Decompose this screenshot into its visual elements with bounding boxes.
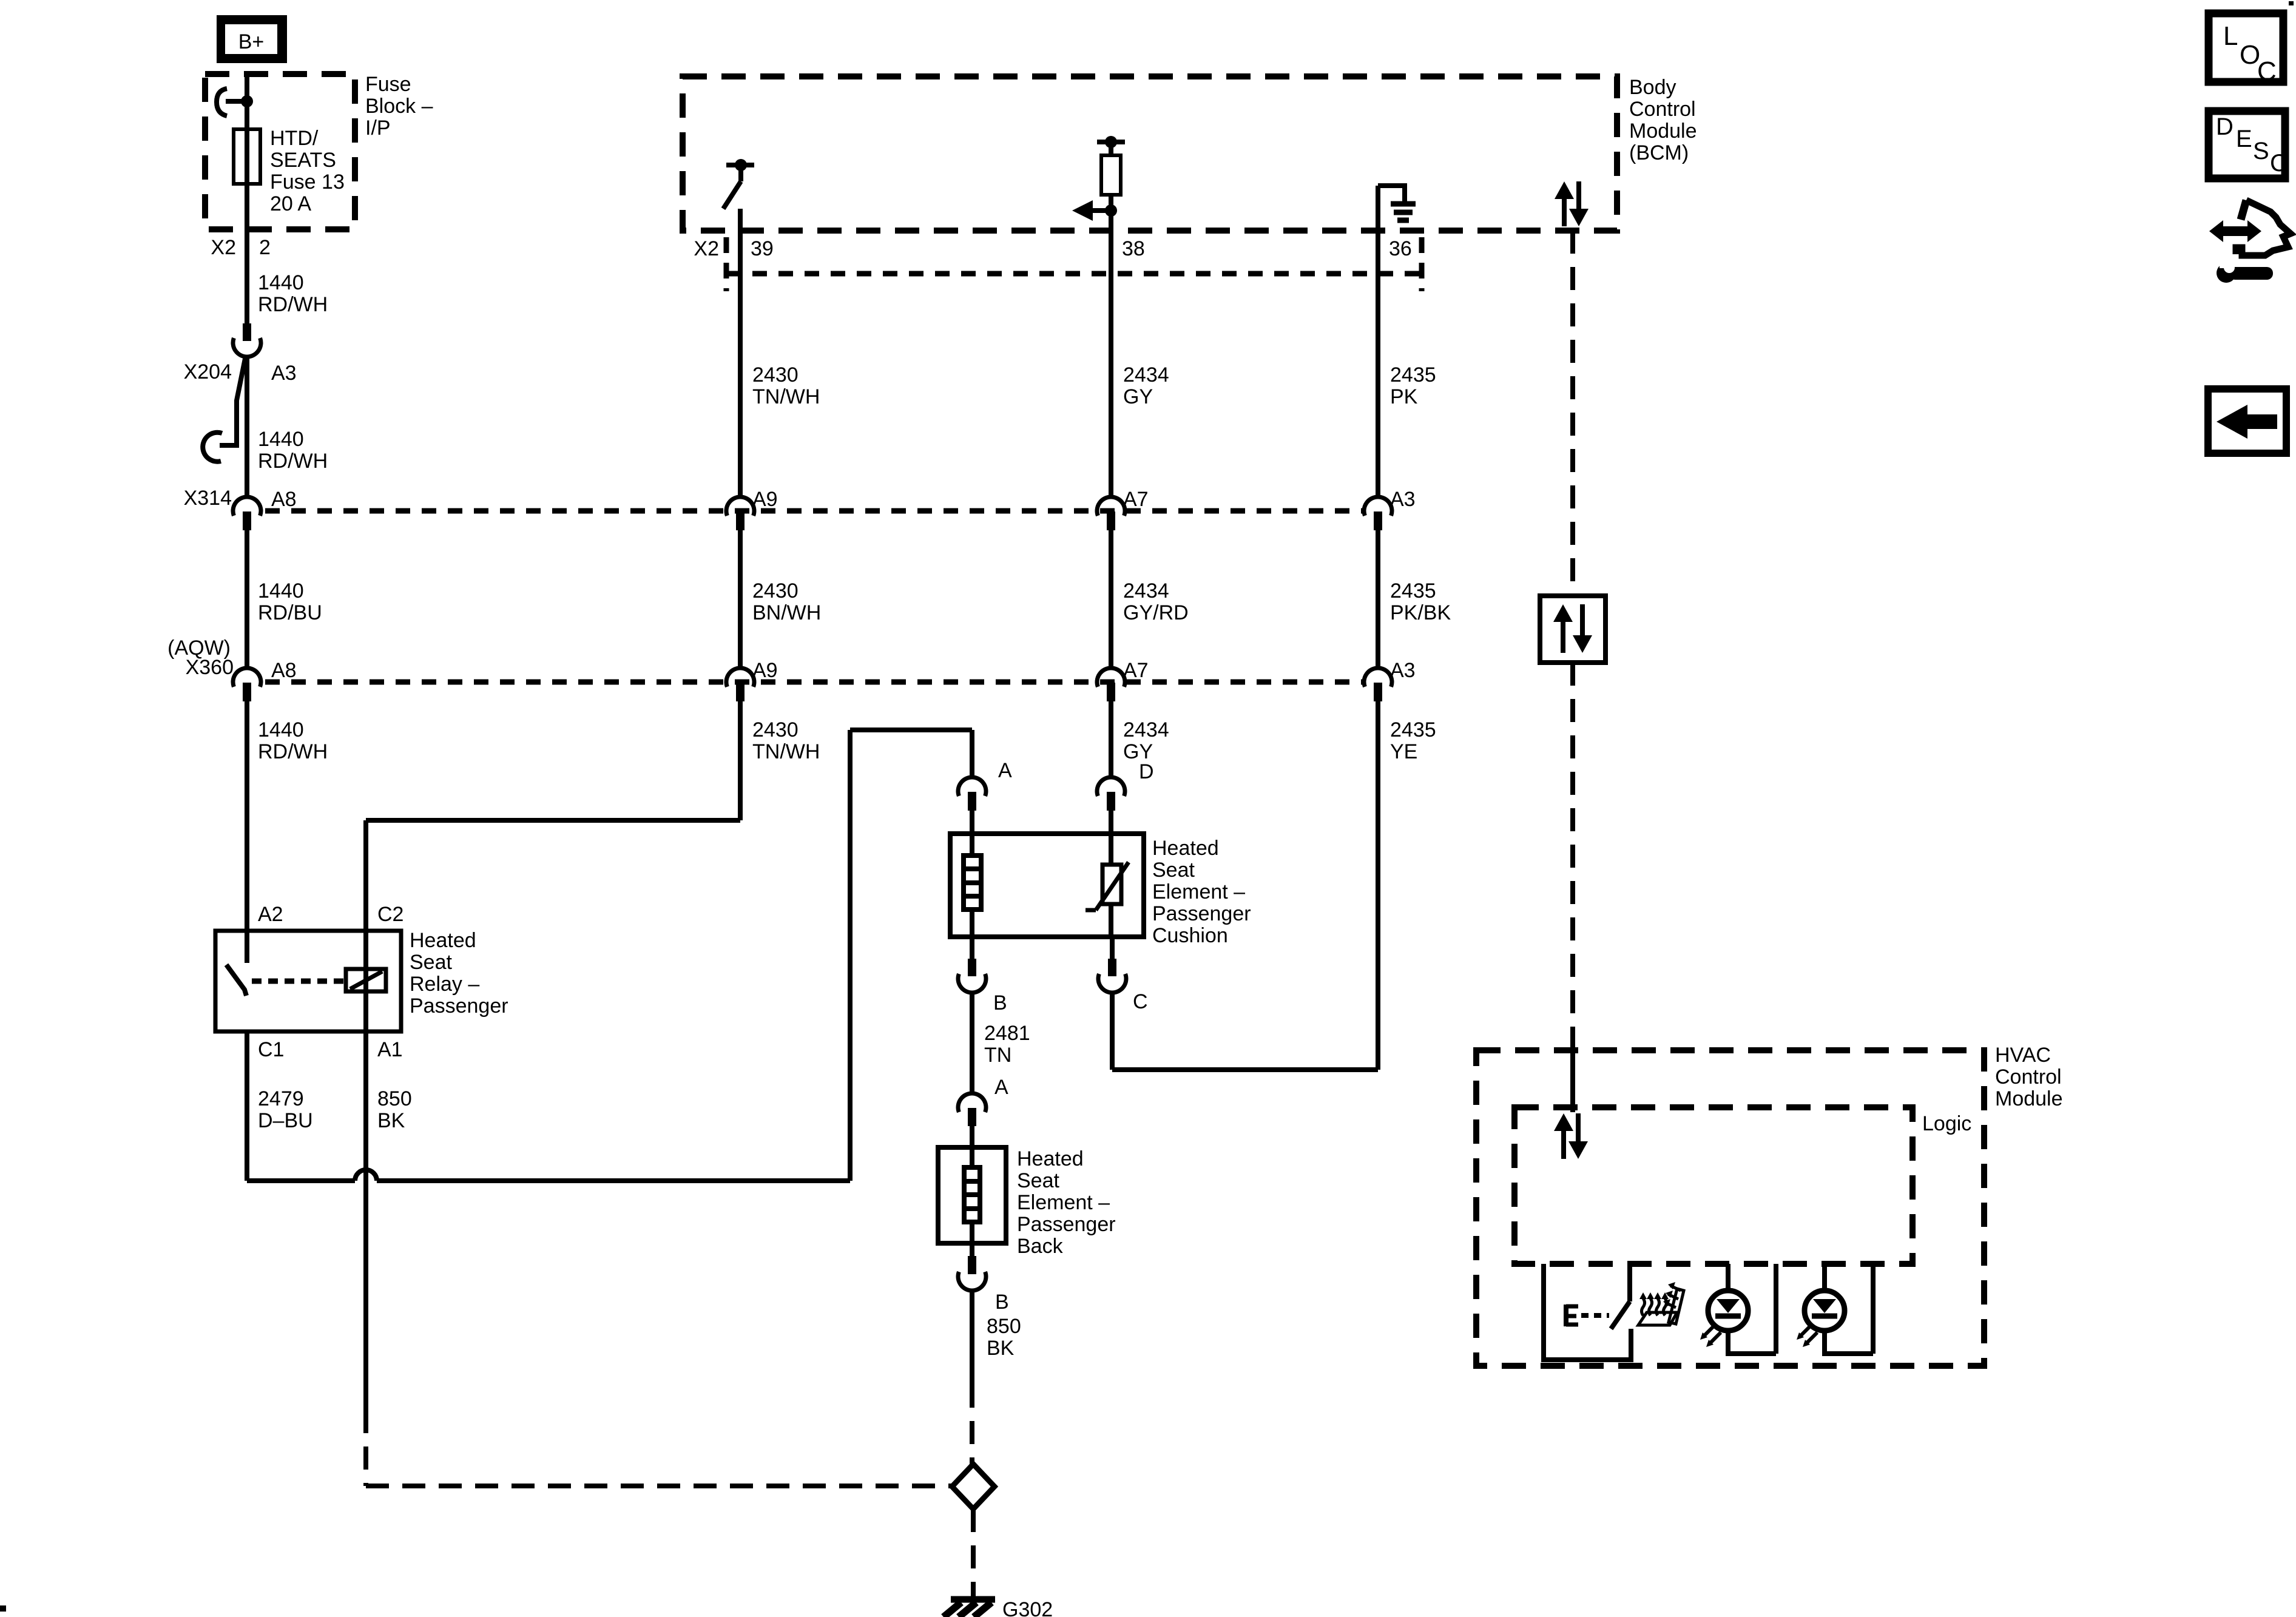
svg-text:YE: YE — [1390, 740, 1417, 763]
heated seat relay box — [215, 931, 401, 1031]
svg-text:A8: A8 — [271, 488, 297, 511]
svg-text:Module: Module — [1995, 1087, 2063, 1110]
svg-text:A3: A3 — [1390, 659, 1416, 682]
svg-text:D: D — [2216, 113, 2234, 140]
svg-text:2434: 2434 — [1123, 363, 1169, 387]
wire pin B below cushion element — [970, 937, 974, 959]
wire 850 BK from relay A1 — [363, 1031, 368, 1410]
dashed wire 850 BK to splice — [363, 1410, 368, 1486]
relay C2 wire through coil — [363, 931, 368, 1031]
wire B+ feed vertical — [245, 76, 249, 323]
svg-text:Module: Module — [1629, 120, 1697, 143]
wire into back element — [970, 1126, 974, 1147]
svg-text:S: S — [2253, 138, 2269, 164]
wire 2430 TN/WH from BCM pin 39 — [738, 209, 743, 497]
wire 1440 RD/WH segment to relay — [245, 701, 249, 931]
heater element symbol back — [970, 1147, 974, 1167]
logic switch arm — [1611, 1301, 1630, 1329]
svg-text:HVAC: HVAC — [1995, 1044, 2051, 1067]
svg-text:Passenger: Passenger — [410, 994, 508, 1018]
in-line connector X314 pin A9 — [726, 497, 754, 516]
dashed harness line connector X314 row — [265, 508, 1364, 514]
svg-text:RD/BU: RD/BU — [258, 601, 322, 624]
svg-text:TN/WH: TN/WH — [752, 385, 820, 408]
BCM serial data arrows — [1555, 181, 1574, 199]
svg-text:GY: GY — [1123, 385, 1153, 408]
relay internal dashed link — [252, 979, 343, 984]
logic switch loop — [1541, 1264, 1546, 1360]
thermistor symbol cushion — [1109, 834, 1113, 865]
dashed serial data wire to HVAC — [1570, 663, 1575, 1039]
logic switch actuator E symbol — [1564, 1305, 1568, 1326]
dashed harness line connector X360 row — [265, 680, 1364, 685]
connector pin B cushion element — [968, 959, 976, 976]
connector pin A back element — [958, 1093, 986, 1112]
wire 2434 GY/RD segment — [1109, 530, 1113, 668]
svg-text:A2: A2 — [258, 903, 283, 926]
fuse block dashed box — [205, 74, 355, 229]
svg-text:TN/WH: TN/WH — [752, 740, 820, 763]
logic dashed box — [1514, 1107, 1913, 1264]
wire pin C below cushion element — [1110, 937, 1115, 959]
splice diamond — [952, 1464, 994, 1509]
heated seat element back box — [938, 1147, 1006, 1243]
connector lead pigtail symbol at X204 — [220, 359, 245, 445]
svg-text:Element –: Element – — [1017, 1191, 1110, 1214]
svg-text:D: D — [1139, 760, 1154, 783]
svg-text:GY/RD: GY/RD — [1123, 601, 1189, 624]
wire 2479 D-BU from relay C1 — [245, 1031, 249, 1181]
logic switch dashes — [1581, 1313, 1609, 1318]
logic serial arrows — [1554, 1113, 1573, 1131]
relay A2 coil stub — [245, 931, 249, 963]
svg-text:Logic: Logic — [1922, 1112, 1971, 1135]
indicator LED 1 — [1708, 1291, 1748, 1331]
svg-text:A3: A3 — [1390, 488, 1416, 511]
svg-text:1440: 1440 — [258, 718, 304, 741]
svg-text:B: B — [993, 991, 1007, 1014]
svg-text:A9: A9 — [752, 659, 778, 682]
svg-text:2430: 2430 — [752, 579, 799, 603]
svg-text:HTD/: HTD/ — [270, 127, 319, 150]
wire 1440 RD/WH segment below X204 — [245, 356, 249, 497]
svg-text:C: C — [2270, 150, 2288, 177]
wire 2481 TN — [970, 992, 974, 1093]
connector view icon (arrow, terminal outline, wrench) — [2209, 220, 2223, 242]
page mark top right — [2289, 1, 2294, 5]
svg-text:39: 39 — [751, 237, 774, 260]
heated seat icon — [1638, 1312, 1677, 1325]
in-line connector X204 pin A3 — [243, 323, 251, 341]
svg-text:1440: 1440 — [258, 428, 304, 451]
wire 2434 GY from BCM pin 38 — [1109, 211, 1113, 497]
svg-text:C2: C2 — [377, 903, 403, 926]
DESC icon box — [2209, 111, 2285, 178]
svg-text:850: 850 — [987, 1315, 1021, 1338]
svg-text:36: 36 — [1389, 237, 1412, 260]
svg-text:Body: Body — [1629, 76, 1676, 99]
svg-text:C1: C1 — [258, 1038, 284, 1061]
svg-text:A8: A8 — [271, 659, 297, 682]
fuse HTD/SEATS Fuse 13 20A symbol — [234, 129, 260, 184]
wire pin B below back element — [970, 1243, 974, 1256]
svg-text:A: A — [994, 1076, 1008, 1099]
back arrow icon box — [2208, 389, 2286, 453]
svg-text:C: C — [2257, 56, 2277, 86]
svg-text:I/P: I/P — [365, 116, 391, 140]
BCM internal ground pin 36 — [1378, 183, 1405, 188]
heated seat element cushion box — [950, 834, 1144, 937]
svg-text:Seat: Seat — [1152, 859, 1195, 882]
ground G302 symbol — [971, 1590, 976, 1599]
svg-text:BK: BK — [377, 1109, 405, 1132]
in-line connector X360 pin A8 (left) — [233, 668, 261, 687]
svg-text:G302: G302 — [1002, 1598, 1053, 1617]
connector X2 BCM dotted row — [726, 271, 1422, 277]
svg-text:2435: 2435 — [1390, 718, 1436, 741]
svg-text:RD/WH: RD/WH — [258, 293, 328, 316]
svg-text:A9: A9 — [752, 488, 778, 511]
svg-text:Back: Back — [1017, 1235, 1064, 1258]
in-line connector X314 pin A7 — [1097, 497, 1125, 516]
svg-text:1440: 1440 — [258, 579, 304, 603]
in-line connector X314 pin A3 — [1364, 497, 1392, 516]
svg-text:X204: X204 — [184, 360, 232, 383]
svg-text:X2: X2 — [694, 237, 719, 260]
connector pin C cushion element — [1108, 959, 1116, 976]
wire 850 BK to splice — [970, 1290, 974, 1385]
svg-text:X2: X2 — [211, 236, 236, 259]
svg-text:Seat: Seat — [410, 951, 452, 974]
svg-text:B+: B+ — [238, 30, 265, 53]
svg-text:A7: A7 — [1123, 659, 1149, 682]
svg-text:Cushion: Cushion — [1152, 924, 1228, 947]
in-line connector X360 pin A3 — [1364, 668, 1392, 687]
svg-text:PK: PK — [1390, 385, 1418, 408]
svg-text:38: 38 — [1122, 237, 1145, 260]
dashed wire 850 BK to diamond splice — [970, 1385, 974, 1464]
wire 2430 BN/WH segment — [738, 530, 743, 668]
connector pin A cushion element — [958, 777, 986, 796]
svg-text:Element –: Element – — [1152, 880, 1245, 903]
svg-text:2481: 2481 — [984, 1022, 1030, 1045]
svg-text:Block –: Block – — [365, 95, 433, 118]
connector X2 BCM dashed separators — [724, 237, 729, 291]
svg-text:2479: 2479 — [258, 1087, 304, 1110]
svg-text:2434: 2434 — [1123, 718, 1169, 741]
heater element symbol cushion — [970, 834, 974, 856]
svg-text:Relay –: Relay – — [410, 973, 479, 996]
connector pin B back element — [968, 1256, 976, 1274]
page mark bottom left — [0, 1605, 6, 1612]
svg-text:1440: 1440 — [258, 271, 304, 294]
wire 1440 RD/BU segment — [245, 530, 249, 668]
svg-text:A1: A1 — [377, 1038, 403, 1061]
serial data wire inside HVAC — [1570, 1039, 1575, 1112]
dashed wire splice to ground — [971, 1509, 976, 1591]
connector pin D cushion element — [1097, 777, 1125, 796]
serial data symbol arrows — [1553, 604, 1573, 622]
svg-text:Fuse 13: Fuse 13 — [270, 170, 345, 194]
wire 2434 GY segment to element — [1109, 701, 1113, 777]
wire pin D into element — [1109, 811, 1113, 834]
svg-text:Seat: Seat — [1017, 1169, 1059, 1192]
svg-text:RD/WH: RD/WH — [258, 740, 328, 763]
svg-text:Control: Control — [1629, 98, 1696, 121]
wire pin A into element — [970, 811, 974, 834]
LOC icon box — [2209, 13, 2283, 82]
Body Control Module dashed box — [683, 76, 1617, 231]
wire riser to cushion element pin A — [848, 730, 853, 1181]
svg-text:X360: X360 — [186, 656, 234, 679]
svg-text:Control: Control — [1995, 1065, 2062, 1089]
svg-text:TN: TN — [984, 1044, 1011, 1067]
svg-text:BK: BK — [987, 1337, 1015, 1360]
svg-text:D–BU: D–BU — [258, 1109, 313, 1132]
BCM internal switch output pin 39 — [726, 163, 754, 167]
svg-text:2435: 2435 — [1390, 363, 1436, 387]
svg-text:X314: X314 — [184, 487, 232, 510]
svg-text:A3: A3 — [271, 362, 297, 385]
relay coil box — [346, 969, 386, 991]
wire 2435 PK/BK segment — [1376, 530, 1380, 668]
svg-text:RD/WH: RD/WH — [258, 450, 328, 473]
svg-text:L: L — [2223, 21, 2238, 51]
serial data symbol box — [1540, 596, 1606, 663]
svg-text:2430: 2430 — [752, 363, 799, 387]
svg-text:C: C — [1133, 990, 1148, 1013]
in-line connector X360 pin A7 — [1097, 668, 1125, 687]
svg-text:(BCM): (BCM) — [1629, 141, 1689, 164]
power terminal B+ box — [217, 15, 287, 63]
svg-text:E: E — [2236, 126, 2252, 152]
svg-text:2: 2 — [259, 236, 271, 259]
svg-text:A: A — [998, 759, 1012, 782]
svg-text:Fuse: Fuse — [365, 73, 411, 96]
svg-text:Heated: Heated — [1017, 1147, 1084, 1170]
svg-text:SEATS: SEATS — [270, 149, 336, 172]
svg-text:2434: 2434 — [1123, 579, 1169, 603]
svg-text:Passenger: Passenger — [1152, 902, 1251, 925]
relay switch arm — [226, 965, 246, 996]
svg-text:2430: 2430 — [752, 718, 799, 741]
wire hop over 850 BK — [355, 1170, 377, 1181]
svg-text:A7: A7 — [1123, 488, 1149, 511]
svg-text:Heated: Heated — [410, 929, 476, 952]
svg-text:B: B — [995, 1291, 1009, 1314]
dashed serial data wire from BCM — [1570, 231, 1575, 596]
circuit breaker hook symbol in fuse block — [241, 95, 253, 107]
svg-text:2435: 2435 — [1390, 579, 1436, 603]
HVAC control module dashed box — [1476, 1050, 1984, 1366]
svg-text:20 A: 20 A — [270, 192, 311, 215]
svg-text:850: 850 — [377, 1087, 412, 1110]
BCM internal resistor and sense arrow pin 38 — [1097, 140, 1125, 144]
wire 2430 TN/WH segment to relay — [738, 701, 743, 820]
in-line connector X360 pin A9 — [726, 668, 754, 687]
svg-text:Heated: Heated — [1152, 837, 1219, 860]
indicator LED 2 — [1805, 1291, 1845, 1331]
in-line connector X314 pin A8 (left) — [233, 497, 261, 516]
wire 2435 PK from BCM pin 36 — [1376, 186, 1380, 497]
svg-text:PK/BK: PK/BK — [1390, 601, 1451, 624]
svg-text:Passenger: Passenger — [1017, 1213, 1116, 1236]
svg-text:BN/WH: BN/WH — [752, 601, 821, 624]
wire 2435 YE segment — [1376, 701, 1380, 1070]
